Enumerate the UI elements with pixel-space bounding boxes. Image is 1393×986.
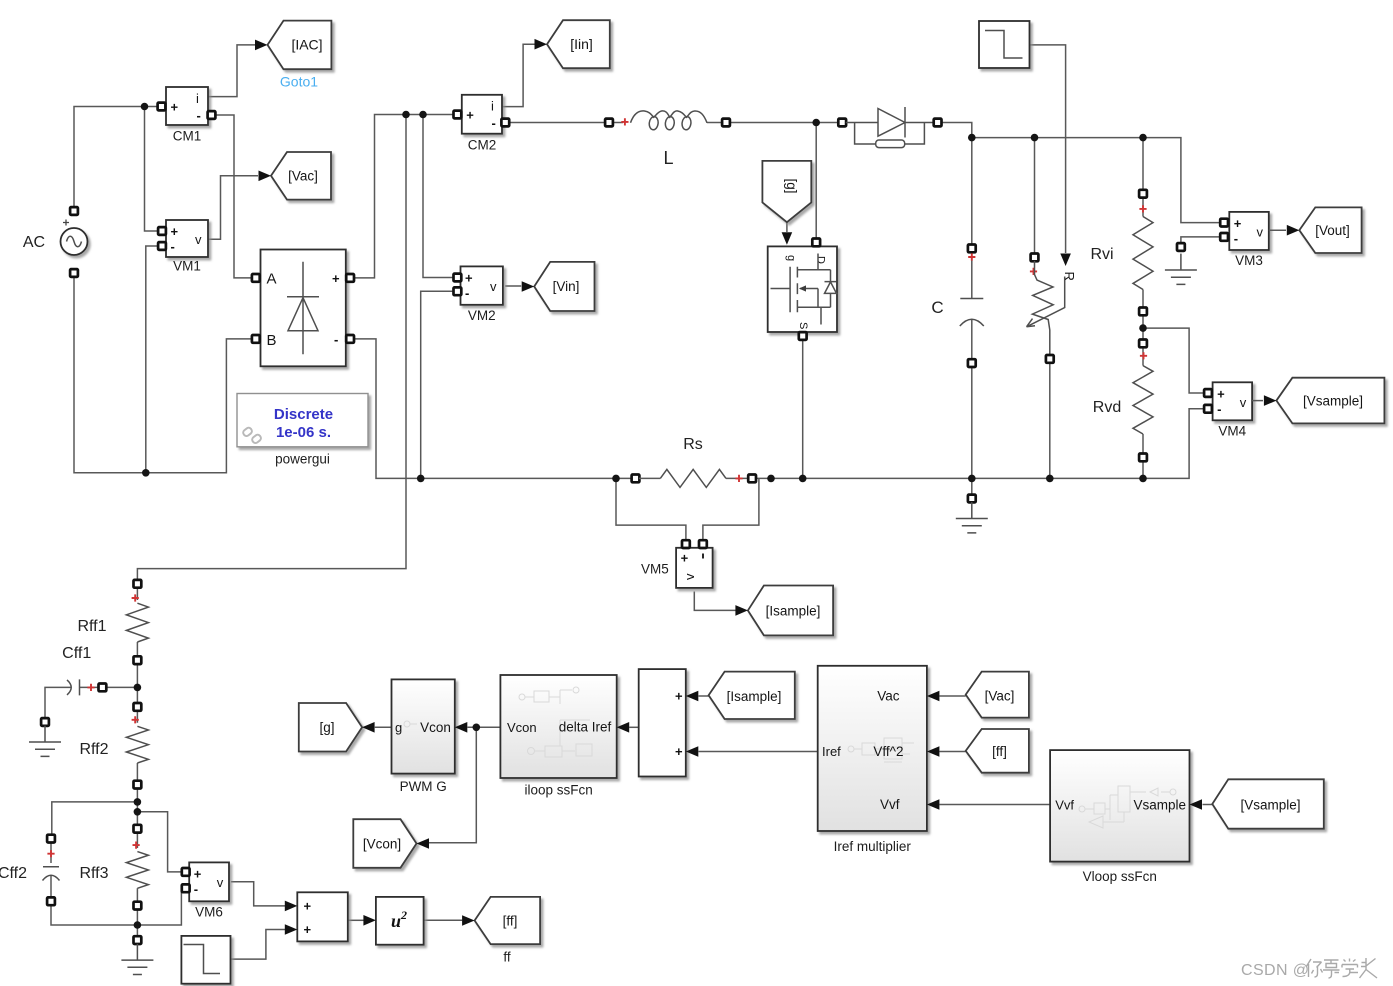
- subsystem PWM G: [392, 679, 468, 794]
- voltage measurement VM1: [158, 220, 208, 274]
- wire step1 to variable resistor control: [1030, 45, 1066, 253]
- wire Vloop output to Iref multiplier Vvf: [940, 804, 1051, 806]
- svg-text:VM6: VM6: [195, 905, 223, 920]
- svg-text:Vff^2: Vff^2: [873, 744, 903, 759]
- svg-text:VM3: VM3: [1235, 253, 1263, 268]
- wire diode to output bus: [941, 123, 1220, 223]
- wire net rectifier + to CM2+, VM2+, feedforward divider: [137, 115, 453, 581]
- subsystem iloop ssFcn: [500, 675, 629, 798]
- resistor Rff3: [79, 825, 148, 910]
- svg-text:g: g: [785, 255, 797, 261]
- svg-text:Iref: Iref: [822, 744, 841, 759]
- wire CM1 i output to [IAC]: [207, 45, 256, 97]
- svg-text:powergui: powergui: [275, 452, 330, 467]
- svg-text:Cff2: Cff2: [0, 865, 27, 882]
- goto tag [ff]: [462, 897, 540, 965]
- resistor Rvi: [1090, 190, 1153, 315]
- voltage measurement VM5 (rotated): [641, 540, 713, 588]
- svg-text:v: v: [1257, 225, 1264, 240]
- wire Rff3 bottom node to VM6 - input: [137, 888, 182, 925]
- svg-text:-: -: [492, 116, 496, 131]
- ground (DC- rail): [956, 495, 988, 533]
- goto tag [Vcon]: [353, 819, 429, 868]
- svg-text:+: +: [675, 744, 683, 759]
- svg-text:[g]: [g]: [784, 178, 799, 193]
- sum block (current loop, mirrored): [639, 669, 699, 776]
- wire step2 to sum1: [231, 930, 285, 960]
- svg-text:v: v: [1240, 395, 1247, 410]
- wire VM1 v output to [Vac]: [207, 176, 258, 240]
- svg-text:v: v: [217, 875, 224, 890]
- subsystem Iref multiplier: [818, 666, 940, 854]
- current measurement CM2: [454, 95, 510, 153]
- diode bridge rectifier: [252, 250, 354, 367]
- from tag [ff]: [966, 729, 1029, 773]
- wire net AC+ to CM1+ and VM1+: [74, 107, 158, 232]
- watermark CSDN: [1241, 958, 1377, 979]
- wire bus to load R branch: [1035, 138, 1050, 479]
- svg-text:Goto1: Goto1: [280, 74, 318, 90]
- svg-text:Vvf: Vvf: [1055, 798, 1074, 813]
- svg-text:Rff1: Rff1: [77, 618, 106, 635]
- svg-text:+: +: [1234, 216, 1242, 231]
- svg-text:+: +: [465, 271, 473, 286]
- svg-text:g: g: [395, 720, 402, 735]
- from tag [g] feeding MOSFET gate: [762, 161, 811, 245]
- wire CM2 i output to [Iin]: [501, 44, 535, 106]
- wire [ff] from-tag to Iref multiplier: [940, 751, 966, 753]
- svg-text:+: +: [1217, 387, 1225, 402]
- voltage measurement VM4: [1204, 382, 1252, 438]
- svg-text:Vvf: Vvf: [880, 797, 900, 812]
- wire bus to Rvi/Rvd divider: [1142, 138, 1144, 479]
- svg-text:v: v: [195, 232, 202, 247]
- wire node to VM6 + input: [137, 812, 182, 872]
- svg-text:-: -: [334, 332, 338, 347]
- wire [Vsample] from-tag to Vloop ssFcn: [1203, 804, 1213, 806]
- svg-text:Rvd: Rvd: [1093, 399, 1121, 416]
- current measurement CM1: [158, 87, 216, 144]
- wire net CM1- to rectifier A: [215, 115, 252, 278]
- svg-text:CM2: CM2: [468, 138, 497, 153]
- svg-text:i: i: [196, 91, 199, 106]
- wire Rff2/Rff3 node to Cff2: [51, 802, 137, 925]
- goto tag [g]: [299, 703, 375, 752]
- wire MOSFET source to rail: [802, 340, 804, 479]
- ground for Cff1: [29, 718, 61, 756]
- svg-text:-: -: [1234, 231, 1238, 246]
- svg-text:-: -: [1217, 402, 1221, 417]
- goto tag [Iin]: [535, 20, 610, 68]
- wire [Vac] from-tag to Iref multiplier: [940, 695, 966, 697]
- goto tag [Vac]: [259, 152, 332, 200]
- svg-text:iloop ssFcn: iloop ssFcn: [524, 783, 592, 798]
- from tag [Vac]: [966, 672, 1029, 718]
- sense resistor Rs: [632, 436, 756, 487]
- svg-text:+: +: [466, 108, 474, 123]
- svg-text:[Vsample]: [Vsample]: [1240, 798, 1300, 813]
- svg-text:CSDN @: CSDN @: [1241, 962, 1309, 979]
- wire VM6 output to sum1: [231, 882, 285, 906]
- svg-text:Vloop ssFcn: Vloop ssFcn: [1083, 869, 1157, 884]
- goto tag [Vsample]: [1264, 378, 1385, 424]
- svg-text:Iref multiplier: Iref multiplier: [834, 839, 912, 854]
- svg-text:[Isample]: [Isample]: [727, 689, 782, 704]
- svg-text:-: -: [194, 882, 198, 897]
- wire VM5 output to [Isample]: [694, 592, 735, 611]
- svg-text:[Vin]: [Vin]: [553, 279, 580, 294]
- wire iloop output to PWM G, branch to [Vcon]: [429, 727, 500, 843]
- wire u2 to [ff]: [424, 919, 463, 921]
- AC source: [23, 207, 88, 277]
- svg-text:+: +: [304, 899, 312, 914]
- svg-text:-: -: [171, 239, 175, 254]
- powergui block: [237, 394, 368, 467]
- wire sum2 output to iloop ssFcn: [629, 726, 639, 728]
- ground near VM3: [1165, 243, 1197, 284]
- svg-text:+: +: [194, 867, 202, 882]
- wire bus to capacitor C branch: [971, 138, 973, 495]
- svg-text:[IAC]: [IAC]: [291, 37, 322, 53]
- svg-text:[Iin]: [Iin]: [570, 36, 593, 52]
- svg-text:C: C: [931, 298, 943, 317]
- svg-text:L: L: [663, 148, 673, 168]
- svg-text:Rvi: Rvi: [1090, 246, 1113, 263]
- wire [Isample] from-tag to sum2: [699, 695, 709, 697]
- svg-text:+: +: [681, 551, 689, 566]
- svg-text:Vcon: Vcon: [420, 720, 451, 735]
- svg-text:ff: ff: [503, 950, 511, 965]
- svg-text:AC: AC: [23, 234, 45, 251]
- svg-text:u: u: [391, 911, 401, 931]
- wire Rff chain connections: [136, 587, 138, 936]
- svg-text:Rff3: Rff3: [79, 865, 108, 882]
- capacitor Cff2: [0, 835, 60, 906]
- svg-text:[Vac]: [Vac]: [985, 689, 1015, 704]
- svg-text:Discrete: Discrete: [274, 406, 333, 423]
- inductor L: [605, 111, 730, 168]
- svg-text:delta Iref: delta Iref: [559, 720, 612, 735]
- svg-text:VM4: VM4: [1218, 424, 1246, 439]
- goto tag [Vout]: [1287, 207, 1362, 253]
- wire Iref output to sum2 second input: [699, 751, 818, 753]
- svg-text:2: 2: [400, 908, 407, 922]
- voltage measurement VM3: [1220, 212, 1269, 268]
- wire VM5 sense right: [703, 478, 759, 540]
- wire net AC- / rectifier B rail: [74, 246, 252, 473]
- wire VM3- to ground: [1181, 237, 1221, 243]
- MOSFET switch block: [768, 239, 837, 340]
- ground under Rff3: [121, 936, 153, 974]
- svg-text:[Vsample]: [Vsample]: [1303, 394, 1363, 409]
- svg-text:-: -: [197, 108, 201, 123]
- wire DC- rail right section: [756, 409, 1205, 479]
- wire CM2- to inductor L: [509, 122, 606, 124]
- svg-text:A: A: [267, 271, 277, 288]
- wire VM3 to [Vout]: [1269, 229, 1286, 231]
- capacitor Cff1: [62, 645, 106, 695]
- svg-text:[ff]: [ff]: [992, 744, 1007, 759]
- math function u^2: [363, 897, 423, 945]
- sum block (feedforward): [285, 892, 348, 941]
- goto tag [IAC]: [255, 21, 331, 70]
- svg-text:Cff1: Cff1: [62, 645, 91, 662]
- goto tag [Vin]: [522, 262, 595, 311]
- wire Rvi/Rvd midpoint to VM4+: [1143, 328, 1204, 393]
- svg-text:-: -: [465, 286, 469, 301]
- svg-text:[Vcon]: [Vcon]: [363, 837, 401, 852]
- svg-text:VM5: VM5: [641, 562, 669, 577]
- wire net rectifier - to DC- rail: [354, 291, 632, 478]
- svg-text:i: i: [491, 99, 494, 114]
- capacitor C: [931, 245, 983, 368]
- svg-text:VM2: VM2: [468, 308, 496, 323]
- svg-text:Vcon: Vcon: [507, 720, 537, 735]
- wire Cff1 branch to ground: [45, 687, 137, 718]
- svg-text:+: +: [675, 689, 683, 704]
- svg-text:v: v: [682, 573, 697, 580]
- svg-text:+: +: [171, 100, 179, 115]
- svg-text:[g]: [g]: [319, 720, 334, 735]
- wire sum1 to u2: [348, 919, 364, 921]
- svg-text:CM1: CM1: [173, 129, 202, 144]
- svg-text:D: D: [815, 256, 827, 264]
- resistor Rff2: [79, 703, 148, 788]
- svg-text:S: S: [797, 322, 809, 329]
- step source block (load step): [979, 21, 1030, 68]
- voltage measurement VM2: [454, 266, 503, 323]
- step source block (feedforward): [181, 936, 230, 984]
- wire PWM G output to [g] goto: [375, 726, 392, 728]
- wire [g] from-tag arrow to MOSFET gate: [786, 222, 788, 232]
- svg-text:1e-06 s.: 1e-06 s.: [276, 424, 331, 441]
- goto tag [Isample]: [735, 586, 833, 636]
- from tag [Isample]: [709, 672, 795, 719]
- wire L to diode, MOSFET drain branch: [613, 123, 839, 239]
- svg-text:v: v: [490, 279, 497, 294]
- svg-text:Rs: Rs: [683, 436, 703, 453]
- svg-text:Rff2: Rff2: [79, 741, 108, 758]
- wire VM5 sense left: [616, 478, 686, 540]
- svg-text:B: B: [267, 332, 277, 349]
- svg-text:R: R: [1062, 272, 1077, 281]
- svg-text:PWM G: PWM G: [400, 779, 447, 794]
- svg-text:VM1: VM1: [173, 259, 201, 274]
- wire VM2 v output to [Vin]: [505, 285, 521, 287]
- resistor Rvd: [1093, 340, 1153, 462]
- svg-text:+: +: [304, 922, 312, 937]
- svg-text:Vsample: Vsample: [1133, 798, 1186, 813]
- svg-text:+: +: [171, 224, 179, 239]
- svg-text:[ff]: [ff]: [503, 914, 518, 929]
- svg-text:+: +: [332, 271, 340, 286]
- boost diode with snubber: [838, 107, 941, 148]
- voltage measurement VM6: [182, 862, 229, 919]
- from tag [Vsample]: [1212, 779, 1324, 828]
- svg-text:Vac: Vac: [877, 689, 900, 704]
- wire VM4 to [Vsample]: [1252, 400, 1263, 402]
- subsystem Vloop ssFcn: [1050, 750, 1202, 884]
- svg-text:[Vac]: [Vac]: [288, 169, 318, 184]
- resistor Rff1: [77, 580, 148, 664]
- variable load resistor R: [1027, 254, 1078, 363]
- svg-text:[Isample]: [Isample]: [766, 604, 821, 619]
- svg-text:[Vout]: [Vout]: [1315, 223, 1350, 238]
